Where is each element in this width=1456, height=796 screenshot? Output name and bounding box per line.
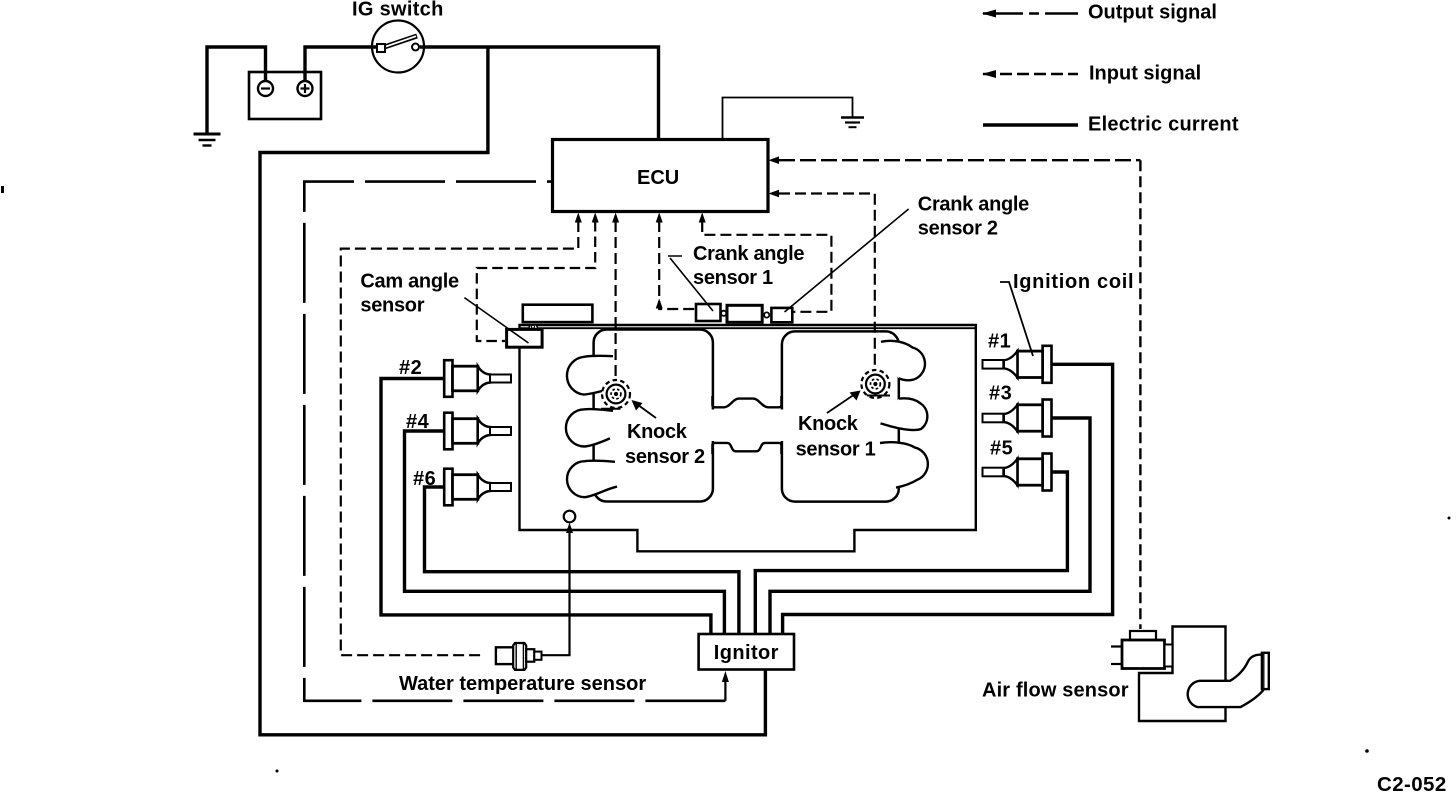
- svg-text:#2: #2: [399, 357, 422, 379]
- svg-text:ECU: ECU: [637, 167, 679, 189]
- crank sensor coupling nipple left: [721, 311, 726, 316]
- air flow signal wire vertical: [1139, 160, 1141, 629]
- water temperature sensor: [496, 643, 542, 670]
- knock sensor 2: [601, 380, 630, 409]
- wire battery plus to IG switch: [305, 47, 376, 81]
- svg-text:Electric current: Electric current: [1088, 113, 1239, 135]
- spark plug #5 wire: [755, 472, 1067, 634]
- ECU output wire to ignitor: [304, 182, 725, 701]
- knock sensor 1: [861, 370, 890, 398]
- water temp junction dot: [567, 527, 573, 533]
- ground G2: [841, 118, 864, 128]
- knock sensor 1 label: [796, 413, 876, 461]
- crank sensor 1 elbow arrow: [656, 299, 663, 309]
- air flow signal wire horizontal: [779, 159, 1140, 161]
- left bank finger 1: [567, 356, 613, 395]
- svg-text:Ignition coil: Ignition coil: [1013, 271, 1134, 293]
- wire branch to ignitor power rail: [260, 47, 765, 735]
- ignition coil leader: [1000, 282, 1033, 356]
- speck bottom left: [276, 770, 279, 773]
- right bank finger 1: [881, 341, 925, 381]
- svg-text:Crank angle: Crank angle: [918, 194, 1029, 216]
- svg-text:sensor 1: sensor 1: [796, 439, 876, 461]
- svg-text:sensor 1: sensor 1: [693, 267, 773, 289]
- crank angle sensor 1 box: [696, 304, 721, 321]
- svg-text:#4: #4: [406, 411, 430, 433]
- svg-text:Knock: Knock: [798, 413, 859, 435]
- knock sensor 2 leader arrow: [632, 400, 657, 418]
- cam sensor signal wire: [477, 221, 595, 341]
- IG switch S1: [372, 21, 424, 73]
- ECU knock1 input arrow: [769, 190, 780, 198]
- svg-text:Cam angle: Cam angle: [360, 271, 459, 293]
- knock sensor 1 signal wire: [779, 194, 875, 371]
- legend electric current line: [983, 123, 1078, 126]
- water temp engine arrow: [566, 523, 573, 534]
- valve cover rectangle: [523, 305, 593, 322]
- svg-text:#6: #6: [413, 468, 436, 490]
- svg-text:sensor 2: sensor 2: [918, 218, 998, 240]
- svg-text:Knock: Knock: [627, 421, 688, 443]
- svg-text:IG switch: IG switch: [352, 0, 444, 21]
- ECU input arrow knock2: [612, 213, 619, 223]
- spark plug #1: [983, 346, 1052, 383]
- right bank finger 2: [881, 398, 928, 430]
- crank angle sensor 2 box: [771, 308, 792, 322]
- spark plug #2 wire: [381, 379, 711, 635]
- svg-text:Ignitor: Ignitor: [714, 642, 779, 664]
- engine deck line: [520, 327, 976, 329]
- svg-text:Crank angle: Crank angle: [693, 243, 804, 265]
- cam angle sensor label: [360, 271, 459, 317]
- svg-text:sensor: sensor: [360, 294, 424, 316]
- spark plug #6 wire: [425, 487, 739, 634]
- svg-text:Air flow sensor: Air flow sensor: [982, 680, 1129, 702]
- wire ECU to ground: [723, 98, 853, 140]
- svg-text:Input signal: Input signal: [1089, 62, 1201, 84]
- svg-text:#1: #1: [988, 331, 1011, 353]
- cam angle sensor: [507, 325, 542, 347]
- speck top left edge: [1, 186, 4, 193]
- knock sensor 2 signal wire: [614, 221, 616, 381]
- ignitor input arrow: [722, 671, 729, 701]
- legend input signal line: [982, 70, 1078, 78]
- legend output signal line: [982, 10, 1078, 18]
- ignitor U2: [699, 634, 794, 670]
- crank sensor coupling nipple right: [764, 312, 769, 317]
- air flow sensor: [1111, 627, 1269, 722]
- svg-text:#3: #3: [989, 383, 1012, 405]
- crank angle sensor 1 label: [693, 243, 804, 289]
- ECU U1: [553, 140, 769, 212]
- crank sensor 2 signal wire: [702, 221, 831, 312]
- spark plug #5: [983, 454, 1052, 491]
- svg-text:Water temperature sensor: Water temperature sensor: [399, 673, 646, 695]
- wire IG switch to ECU feed: [420, 47, 659, 140]
- crankcase upper edge: [712, 396, 781, 407]
- crank angle sensor 2 leader: [785, 209, 909, 312]
- crank sensor middle box: [727, 305, 762, 322]
- water temp signal wire: [341, 221, 579, 655]
- waist opening eraser: [706, 410, 789, 442]
- wire battery minus to ground: [207, 47, 266, 133]
- left cylinder bank: [594, 330, 713, 502]
- spark plug #3: [983, 400, 1052, 437]
- spark plug #6: [444, 469, 511, 506]
- crankcase lower edge: [712, 443, 781, 454]
- right bank finger 3: [880, 442, 928, 487]
- spark plug #1 wire: [783, 364, 1113, 634]
- ECU input arrow crank2: [699, 213, 706, 223]
- spark plug #4: [444, 413, 511, 450]
- left bank finger 3: [567, 461, 617, 497]
- crank angle sensor 2 label: [918, 194, 1029, 240]
- spark plug #2: [444, 360, 511, 397]
- ECU air flow input arrow: [769, 156, 780, 164]
- wire water temp sensor to engine: [542, 533, 570, 655]
- knock sensor 2 label: [625, 421, 705, 468]
- ground G1: [194, 134, 221, 146]
- battery BAT: [249, 72, 321, 119]
- ECU input arrow cam: [592, 213, 599, 223]
- ECU input arrow crank1: [656, 213, 663, 223]
- speck mid right: [1448, 517, 1451, 520]
- right cylinder bank: [782, 331, 899, 501]
- crank angle sensor 1 leader: [668, 256, 713, 311]
- engine block outline: [520, 325, 976, 551]
- left bank finger 2: [566, 409, 613, 446]
- knock sensor 1 leader arrow: [827, 391, 861, 414]
- crank sensor 1 signal wire: [659, 221, 695, 309]
- water temp engine port circle: [564, 511, 576, 523]
- svg-text:#5: #5: [990, 438, 1013, 460]
- cam angle sensor leader: [464, 298, 528, 343]
- speck bottom right: [1365, 749, 1369, 753]
- ECU input arrow water temp: [575, 213, 582, 223]
- svg-text:C2-052: C2-052: [1377, 773, 1447, 796]
- svg-text:Output signal: Output signal: [1088, 2, 1217, 24]
- spark plug #3 wire: [770, 418, 1090, 634]
- svg-text:sensor 2: sensor 2: [625, 446, 705, 468]
- spark plug #4 wire: [405, 431, 725, 634]
